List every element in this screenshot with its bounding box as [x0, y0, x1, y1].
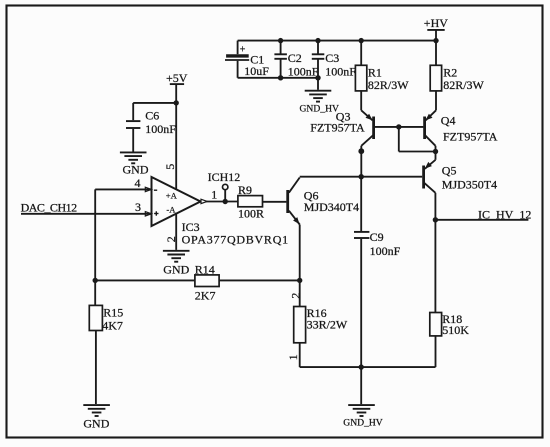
ground GND_HV top [300, 91, 340, 115]
svg-text:1: 1 [286, 354, 300, 360]
svg-text:DAC_CH12: DAC_CH12 [21, 201, 78, 215]
svg-text:100nF: 100nF [145, 122, 176, 136]
svg-text:+HV: +HV [424, 16, 448, 30]
svg-text:R14: R14 [195, 262, 215, 276]
svg-text:-A: -A [166, 204, 176, 214]
node ICH12 [208, 170, 241, 204]
capacitor C2 [274, 41, 318, 79]
svg-text:GND_HV: GND_HV [300, 104, 340, 115]
transistor Q5 [424, 160, 498, 220]
power +HV [424, 16, 448, 40]
node R14/Q6 emitter/R16 [297, 278, 302, 283]
svg-text:GND: GND [163, 263, 189, 277]
net IC_HV_12 [435, 208, 531, 222]
svg-text:C3: C3 [325, 51, 339, 65]
resistor R18 [430, 220, 470, 367]
node +5V/C6 [174, 100, 179, 105]
svg-text:10uF: 10uF [244, 64, 269, 78]
svg-text:FZT957TA: FZT957TA [310, 120, 365, 134]
svg-text:+: + [240, 44, 246, 55]
svg-text:C9: C9 [370, 230, 384, 244]
node C9/Q3 collector [359, 174, 364, 179]
wire op-amp output [206, 201, 238, 203]
svg-text:100nF: 100nF [325, 64, 356, 78]
ground GND_HV bottom [343, 405, 383, 428]
resistor R2 [430, 41, 484, 111]
svg-text:82R/3W: 82R/3W [443, 78, 484, 92]
transistor Q4 [425, 110, 498, 160]
svg-text:1: 1 [211, 187, 217, 201]
wire capacitor bottom bus [238, 77, 318, 79]
wire feedback to R14 [95, 279, 195, 281]
node rail/R1 [359, 38, 364, 43]
node rail/C2 [278, 38, 283, 43]
svg-text:100nF: 100nF [288, 64, 319, 78]
op-amp U1 IC3 [135, 103, 289, 250]
wire to ground [317, 78, 319, 90]
node base junction [396, 124, 401, 129]
svg-text:+A: +A [166, 191, 178, 201]
svg-text:2: 2 [288, 293, 302, 299]
svg-text:OPA377QDBVRQ1: OPA377QDBVRQ1 [182, 233, 289, 247]
svg-text:5: 5 [163, 164, 177, 170]
svg-text:ICH12: ICH12 [208, 170, 241, 184]
node Q5 collector / R18 / output [433, 217, 438, 222]
resistor R1 [355, 41, 409, 111]
node rail/C3 [315, 38, 320, 43]
svg-text:4K7: 4K7 [102, 319, 123, 333]
svg-text:2: 2 [164, 236, 178, 242]
svg-text:3: 3 [135, 200, 141, 214]
resistor R14 [195, 262, 219, 302]
svg-text:Q5: Q5 [442, 164, 457, 178]
wire R14 to Q6 emitter [219, 279, 300, 281]
svg-text:100R: 100R [238, 207, 264, 221]
capacitor C3 [312, 41, 357, 79]
wire R9 to Q6 base [263, 201, 287, 203]
power +5V [166, 71, 188, 103]
svg-text:33R/2W: 33R/2W [307, 317, 348, 331]
transistor Q6 [288, 178, 359, 307]
wire op-amp pin 4 feedback [95, 189, 151, 280]
wire to bottom ground [360, 367, 362, 404]
svg-text:GND_HV: GND_HV [343, 417, 383, 428]
svg-text:GND: GND [123, 162, 149, 176]
wire to C6 [133, 102, 176, 104]
net DAC_CH12 [21, 201, 152, 215]
svg-text:MJD340T4: MJD340T4 [304, 200, 359, 214]
ground GND (op-amp pin 2) [163, 251, 190, 277]
node on Q3 collector line [358, 148, 364, 154]
node bus/C2 [278, 75, 283, 80]
resistor R9 [238, 183, 264, 221]
transistor Q3 [310, 110, 373, 177]
wire top rail [238, 40, 436, 42]
svg-text:R9: R9 [238, 183, 252, 197]
resistor R16 [286, 293, 348, 368]
ground GND (C6) [120, 152, 149, 176]
node bottom bus/GND_HV [359, 364, 364, 369]
svg-text:82R/3W: 82R/3W [368, 78, 409, 92]
svg-text:510K: 510K [442, 323, 469, 337]
svg-text:4: 4 [135, 176, 141, 190]
capacitor C9 [354, 177, 401, 367]
node bus/C3 [315, 75, 320, 80]
svg-text:100nF: 100nF [370, 244, 401, 258]
svg-text:FZT957TA: FZT957TA [443, 129, 498, 143]
ground GND (R15) [83, 405, 110, 430]
svg-text:R15: R15 [103, 305, 123, 319]
wire bottom bus [300, 366, 436, 368]
node feedback/R15 [93, 278, 98, 283]
svg-text:C6: C6 [145, 109, 159, 123]
svg-text:MJD350T4: MJD350T4 [442, 177, 497, 191]
capacitor C1 [225, 41, 269, 78]
svg-text:+5V: +5V [166, 71, 188, 85]
wire Q3/Q4 base tie [375, 127, 436, 152]
svg-text:Q4: Q4 [441, 113, 456, 127]
capacitor C6 [126, 103, 176, 152]
svg-text:C2: C2 [288, 51, 302, 65]
svg-text:GND: GND [83, 416, 109, 430]
node rail/R2/+HV [433, 38, 438, 43]
wire node line (Q6 collector / Q5 base) [300, 176, 423, 178]
svg-text:2K7: 2K7 [195, 289, 216, 303]
node base tie / Q4 collector [433, 149, 438, 154]
resistor R15 [89, 280, 123, 404]
